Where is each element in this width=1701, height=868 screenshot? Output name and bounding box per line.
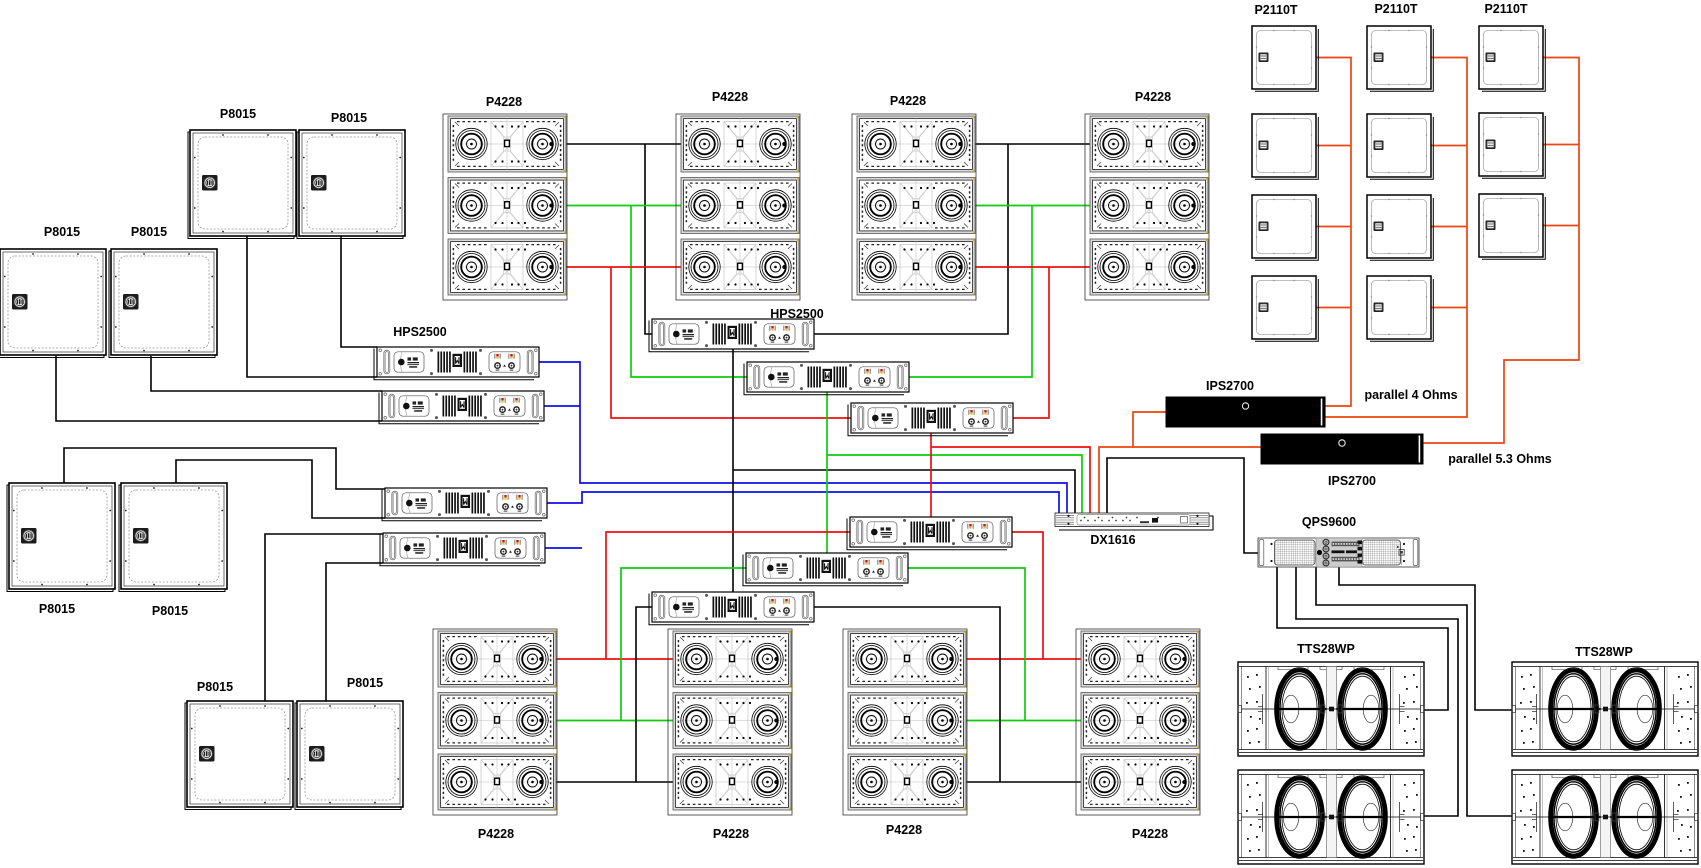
wire P4228 s7u1 to s8u1 (red) bbox=[966, 658, 1081, 660]
svg-text:parallel 4 Ohms: parallel 4 Ohms bbox=[1364, 388, 1457, 402]
wire P8015-5 to HPS2500 amp3 (black) bbox=[64, 448, 385, 489]
wire amp E left to s5/s6 (green) bbox=[621, 568, 746, 721]
svg-text:P4228: P4228 bbox=[478, 827, 514, 841]
speaker P2110T col1 #4 bbox=[1252, 276, 1318, 341]
speaker P8015 #3 bbox=[0, 249, 106, 358]
wire amp B to amp E link (green) bbox=[826, 392, 828, 553]
wire P4228 s5u1 to s6u1 (red) bbox=[556, 658, 673, 660]
speaker P8015 #4 bbox=[109, 249, 217, 358]
svg-text:P4228: P4228 bbox=[886, 823, 922, 837]
wire QPS9600 to TTS28WP left-top (black) bbox=[1277, 567, 1448, 710]
speaker P2110T col3 #2 bbox=[1479, 113, 1545, 178]
speaker stack P4228 stack2 bbox=[676, 114, 800, 300]
wire QPS9600 to TTS28WP left-bottom (black) bbox=[1296, 567, 1458, 816]
speaker stack P4228 stack8 bbox=[1076, 629, 1200, 815]
amplifier HPS2500 amp1 bbox=[374, 347, 539, 380]
svg-text:HPS2500: HPS2500 bbox=[770, 307, 824, 321]
speaker P2110T col3 #1 bbox=[1479, 26, 1545, 91]
speaker stack P4228 stack7 bbox=[843, 629, 967, 815]
speaker P8015 #6 bbox=[119, 483, 227, 592]
wire black link to DX1616 bbox=[733, 470, 1075, 513]
speaker P2110T col2 #1 bbox=[1367, 26, 1433, 91]
svg-text:P2110T: P2110T bbox=[1254, 3, 1297, 17]
wire amp F left to s5/s6 (black) bbox=[636, 607, 652, 782]
svg-text:IPS2700: IPS2700 bbox=[1328, 474, 1376, 488]
speaker P2110T col2 #3 bbox=[1367, 195, 1433, 260]
wire DX1616 to QPS9600 (black) bbox=[1107, 458, 1258, 553]
svg-text:P8015: P8015 bbox=[197, 680, 233, 694]
svg-text:P4228: P4228 bbox=[890, 94, 926, 108]
wire to amp A left (black) bbox=[645, 144, 652, 334]
amplifier HPS2500 amp4 bbox=[380, 533, 545, 566]
speaker stack P4228 stack3 bbox=[852, 114, 976, 300]
amplifier QPS9600 bbox=[1258, 538, 1419, 567]
wire amp B right to s3/s4 (green) bbox=[909, 206, 1032, 378]
speaker stack P4228 stack5 bbox=[433, 629, 557, 815]
svg-text:DX1616: DX1616 bbox=[1090, 533, 1135, 547]
speaker P8015 #7 bbox=[185, 701, 293, 810]
amplifier HPS2500 amp2 bbox=[379, 391, 544, 424]
wire P2110T col2 row3 (orange) bbox=[1431, 226, 1467, 228]
amplifier HPS2500 amp F bbox=[649, 592, 814, 625]
wire green link to DX1616 bbox=[827, 455, 1082, 513]
wire P2110T col3 row2 (orange) bbox=[1543, 144, 1579, 146]
svg-text:HPS2500: HPS2500 bbox=[393, 325, 447, 339]
wire P4228 s5u2 to s6u2 (green) bbox=[556, 720, 673, 722]
wire amp D left to s5/s6 (red) bbox=[606, 532, 850, 659]
wire HPS2500 amp1 to DX1616 (blue) bbox=[539, 362, 1067, 513]
wire P2110T col3 row3 (orange) bbox=[1543, 225, 1579, 227]
svg-text:P8015: P8015 bbox=[220, 107, 256, 121]
subwoofer TTS28WP right-top bbox=[1512, 662, 1698, 756]
processor DX1616 bbox=[1055, 513, 1213, 530]
svg-text:IPS2700: IPS2700 bbox=[1206, 379, 1254, 393]
wire P4228 s3u3 to s4u3 (red) bbox=[975, 266, 1090, 268]
wire P4228 s3u1 to s4u1 (black) bbox=[975, 143, 1090, 145]
svg-text:P8015: P8015 bbox=[39, 602, 75, 616]
wire HPS2500 amp3 to DX1616 (blue) bbox=[547, 492, 1059, 513]
amplifier IPS2700 #1 bbox=[1166, 397, 1325, 427]
wire P2110T col1 row4 (orange) bbox=[1316, 307, 1351, 309]
speaker P8015 #1 bbox=[188, 130, 296, 239]
wire P8015-7 to HPS2500 amp4 (black) bbox=[265, 534, 383, 701]
wire P4228 s1u2 to s2u2 (green) bbox=[566, 205, 681, 207]
amplifier HPS2500 amp E bbox=[743, 553, 908, 586]
wire P4228 s1u3 to s2u3 (red) bbox=[566, 266, 681, 268]
wire amp C right to s3/s4 (red) bbox=[1013, 267, 1049, 418]
speaker P2110T col1 #1 bbox=[1252, 26, 1318, 91]
wire P4228 s5u3 to s6u3 (black) bbox=[556, 781, 673, 783]
speaker P8015 #5 bbox=[7, 483, 115, 592]
wire branch to IPS2700-1 (orange) bbox=[1133, 412, 1166, 447]
wire DX1616 to IPS2700-2 (orange) bbox=[1099, 447, 1261, 513]
wire P2110T col3 bus to IPS2700-2 (orange) bbox=[1423, 58, 1579, 444]
svg-text:P8015: P8015 bbox=[131, 225, 167, 239]
svg-text:P4228: P4228 bbox=[713, 827, 749, 841]
wire P2110T col2 bus to IPS2700-1 (orange) bbox=[1325, 58, 1467, 418]
svg-text:QPS9600: QPS9600 bbox=[1302, 515, 1356, 529]
svg-text:P8015: P8015 bbox=[44, 225, 80, 239]
subwoofer TTS28WP left-top bbox=[1238, 662, 1424, 756]
subwoofer TTS28WP left-bottom bbox=[1238, 770, 1424, 864]
speaker P2110T col1 #2 bbox=[1252, 114, 1318, 179]
wire P8015-6 to HPS2500 amp3 (black) bbox=[176, 460, 385, 518]
wire P2110T col1 row2 (orange) bbox=[1316, 145, 1351, 147]
svg-text:TTS28WP: TTS28WP bbox=[1297, 642, 1355, 656]
subwoofer TTS28WP right-bottom bbox=[1512, 770, 1698, 864]
svg-text:parallel 5.3 Ohms: parallel 5.3 Ohms bbox=[1448, 452, 1552, 466]
wire to amp C left (red) bbox=[611, 267, 851, 418]
speaker stack P4228 stack4 bbox=[1085, 114, 1209, 300]
wire to amp B left (green) bbox=[631, 206, 747, 378]
svg-text:P4228: P4228 bbox=[1135, 90, 1171, 104]
wire P8015-4 to HPS2500 amp2 (black) bbox=[151, 356, 382, 391]
wire amp A to amp F link (black) bbox=[732, 349, 734, 592]
svg-text:P4228: P4228 bbox=[712, 90, 748, 104]
svg-text:TTS28WP: TTS28WP bbox=[1575, 645, 1633, 659]
wire QPS9600 to TTS28WP right-bottom (black) bbox=[1316, 567, 1512, 816]
speaker stack P4228 stack1 bbox=[443, 114, 567, 300]
svg-text:P8015: P8015 bbox=[347, 676, 383, 690]
wire P4228 s1u1 to s2u1 (black) bbox=[566, 143, 681, 145]
speaker P2110T col1 #3 bbox=[1252, 195, 1318, 260]
wire P8015-8 to HPS2500 amp4 (black) bbox=[326, 563, 383, 701]
wire P2110T col1 row3 (orange) bbox=[1316, 226, 1351, 228]
wire HPS2500 amp2 join (blue) bbox=[544, 405, 580, 407]
speaker P2110T col2 #4 bbox=[1367, 276, 1433, 341]
svg-text:P8015: P8015 bbox=[152, 604, 188, 618]
amplifier HPS2500 amp A bbox=[649, 319, 814, 352]
wire QPS9600 to TTS28WP right-top (black) bbox=[1339, 567, 1512, 710]
speaker P8015 #2 bbox=[297, 130, 405, 239]
wire P8015-3 to HPS2500 amp2 (black) bbox=[56, 356, 382, 421]
amplifier HPS2500 amp C bbox=[848, 403, 1013, 436]
speaker P2110T col3 #3 bbox=[1479, 194, 1545, 259]
wire P4228 s7u3 to s8u3 (black) bbox=[966, 781, 1081, 783]
amplifier IPS2700 #2 bbox=[1261, 434, 1423, 464]
svg-text:P4228: P4228 bbox=[1132, 827, 1168, 841]
wire P8015-1 to HPS2500 amp1 (black) bbox=[247, 236, 377, 377]
wire P2110T col2 row4 (orange) bbox=[1431, 307, 1467, 309]
wire P8015-2 to HPS2500 amp1 (black) bbox=[341, 236, 377, 347]
wire amp A right to s3/s4 (black) bbox=[814, 144, 1008, 334]
wire HPS2500 amp4 join (blue) bbox=[545, 547, 582, 549]
amplifier HPS2500 amp D bbox=[847, 517, 1012, 550]
wire P2110T col1 bus to IPS2700-1 (orange) bbox=[1316, 58, 1351, 407]
wire amp F right to s7/s8 (black) bbox=[814, 607, 1000, 782]
amplifier HPS2500 amp3 bbox=[382, 488, 547, 521]
speaker P2110T col2 #2 bbox=[1367, 114, 1433, 179]
wire amp E right to s7/s8 (green) bbox=[908, 568, 1025, 721]
wire amp C to amp D link (red) bbox=[930, 433, 932, 517]
amplifier HPS2500 amp B bbox=[744, 362, 909, 395]
svg-text:P8015: P8015 bbox=[331, 111, 367, 125]
speaker stack P4228 stack6 bbox=[668, 629, 792, 815]
wire P4228 s3u2 to s4u2 (green) bbox=[975, 205, 1090, 207]
speaker P8015 #8 bbox=[295, 701, 403, 810]
svg-text:P2110T: P2110T bbox=[1484, 2, 1527, 16]
wire P2110T col2 row2 (orange) bbox=[1431, 145, 1467, 147]
svg-text:P4228: P4228 bbox=[486, 95, 522, 109]
wire P4228 s7u2 to s8u2 (green) bbox=[966, 720, 1081, 722]
wire amp D right to s7/s8 (red) bbox=[1012, 532, 1043, 659]
svg-text:P2110T: P2110T bbox=[1374, 2, 1417, 16]
wire red link to DX1616 bbox=[931, 447, 1090, 513]
